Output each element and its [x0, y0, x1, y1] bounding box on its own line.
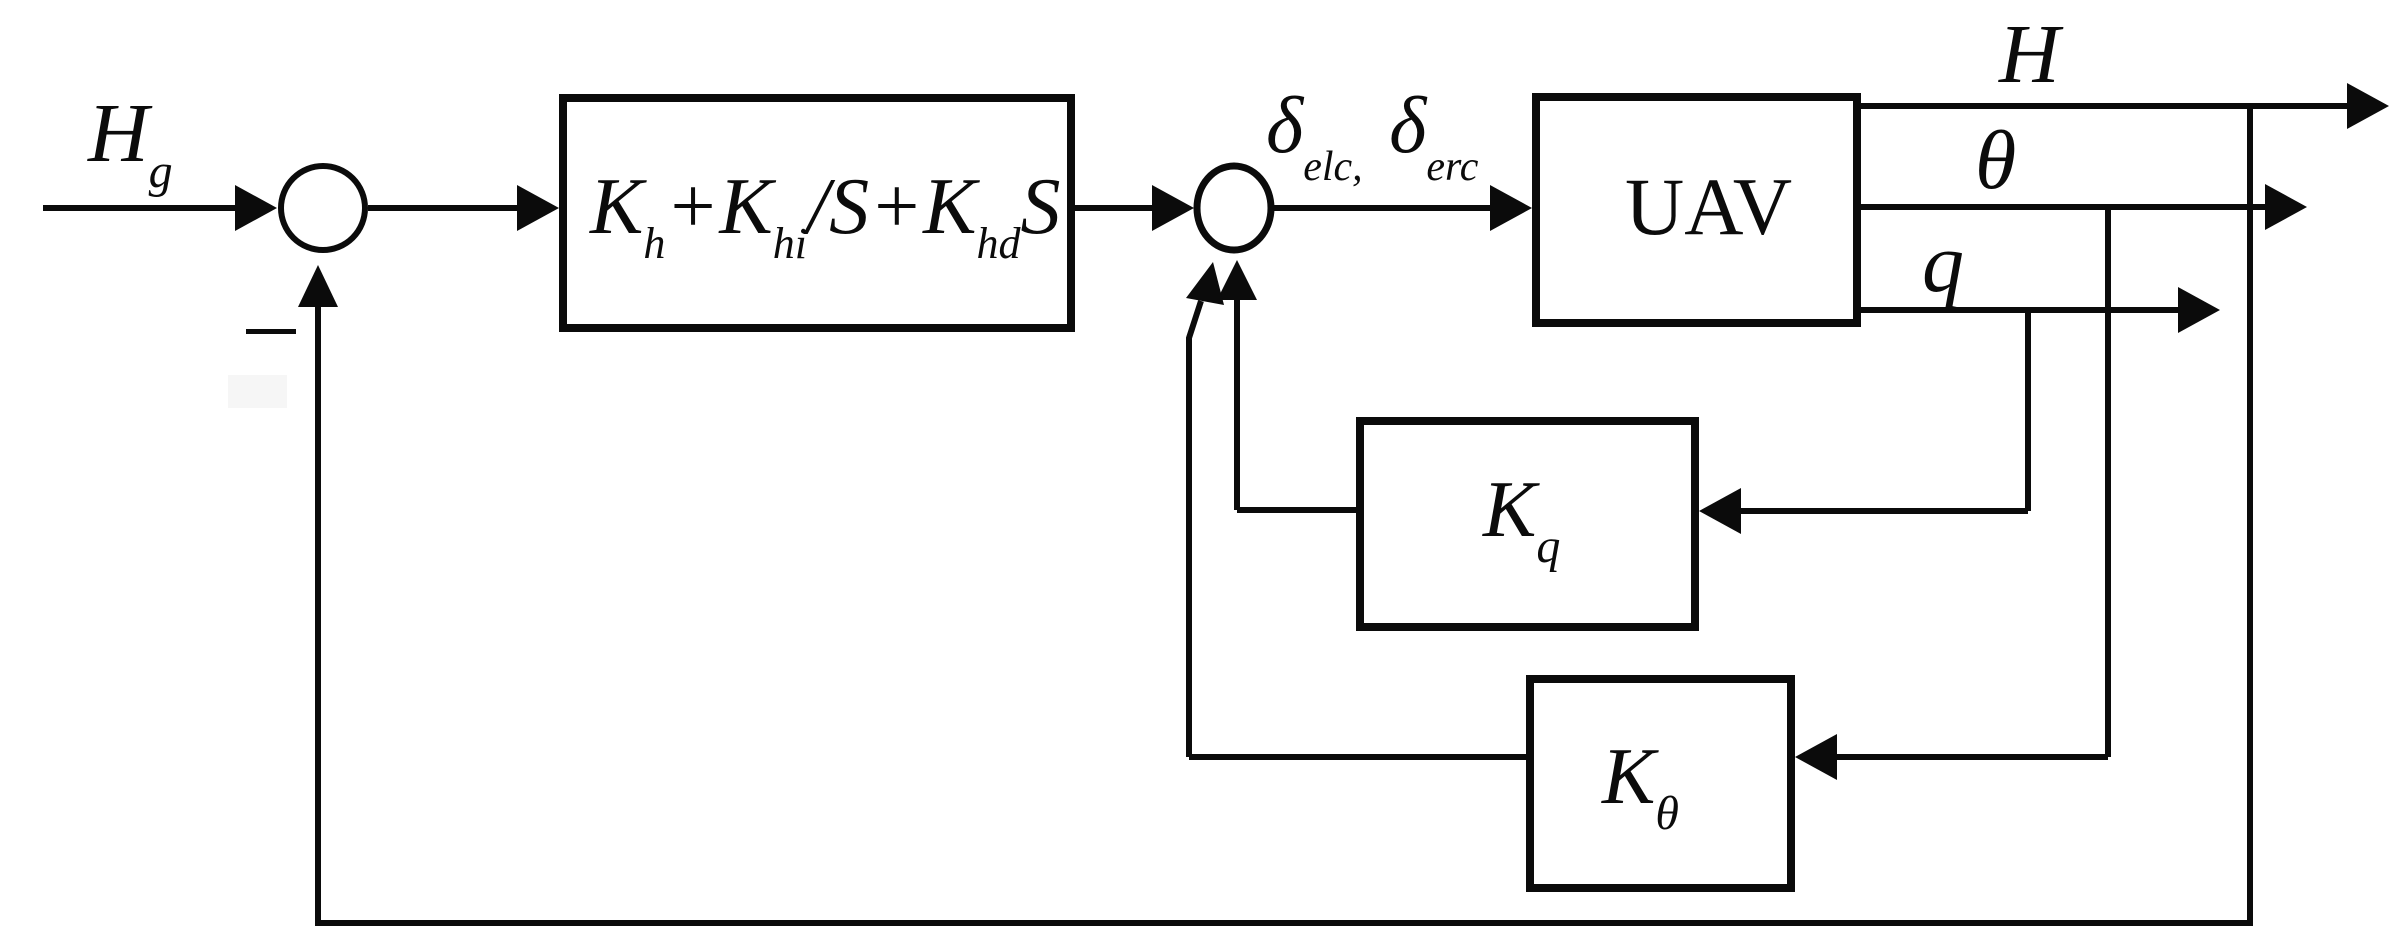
wire Kq output — [1237, 507, 1356, 513]
svg-text:δelc, δerc: δelc, δerc — [1266, 82, 1479, 190]
wire theta feedback to Ktheta — [1795, 734, 2108, 780]
faint artifact rectangle — [228, 375, 287, 408]
wire PID to S2 — [1075, 185, 1194, 231]
wire Ktheta to S2 vertical — [1186, 262, 1224, 757]
wire Kq to S2 vertical — [1217, 260, 1257, 510]
wire bottom feedback — [315, 920, 2253, 926]
wire H tap vertical — [2247, 106, 2253, 920]
block Kq — [1360, 421, 1695, 627]
svg-text:Kq: Kq — [1482, 466, 1560, 573]
svg-text:H: H — [1998, 8, 2064, 101]
wire S2 to UAV — [1271, 185, 1532, 231]
block UAV — [1536, 97, 1857, 323]
wire theta tap vertical — [2105, 207, 2111, 757]
wire S1 to PID block — [368, 185, 559, 231]
wire H output — [1861, 83, 2389, 129]
block Ktheta — [1530, 679, 1791, 888]
wire theta output — [1861, 184, 2307, 230]
svg-text:Hg: Hg — [87, 87, 173, 198]
svg-text:q: q — [1922, 217, 1964, 310]
summing junction S1 — [281, 166, 365, 250]
wire q feedback to Kq — [1699, 488, 2028, 534]
svg-text:Kh+Khi/S+KhdS: Kh+Khi/S+KhdS — [589, 163, 1061, 268]
svg-text:θ: θ — [1975, 114, 2016, 207]
wire q output — [1861, 287, 2220, 333]
svg-text:Kθ: Kθ — [1601, 733, 1679, 840]
svg-text:UAV: UAV — [1625, 161, 1792, 252]
wire Hg input — [43, 185, 277, 231]
minus sign — [246, 329, 296, 334]
wire feedback vertical to S1 — [298, 265, 338, 923]
wire Ktheta output — [1189, 754, 1526, 760]
wire q tap vertical — [2025, 310, 2031, 511]
block PID Kh+Khi/S+KhdS — [563, 98, 1071, 328]
summing junction S2 — [1197, 166, 1271, 250]
